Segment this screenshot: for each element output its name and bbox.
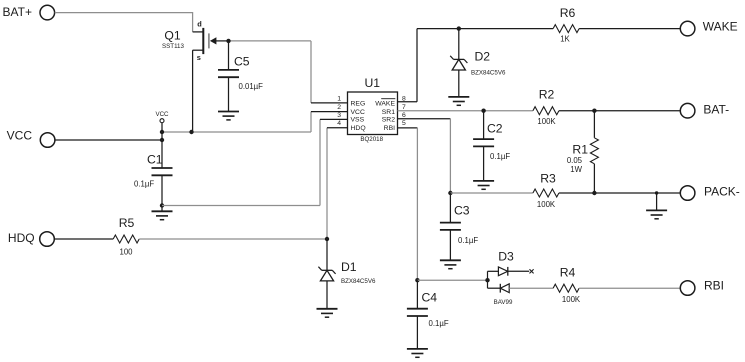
- junction R1 bottom node: [592, 191, 596, 195]
- svg-text:SST113: SST113: [162, 43, 184, 50]
- svg-text:0.1µF: 0.1µF: [458, 236, 478, 245]
- ground under C4: [407, 349, 428, 357]
- wire VCC terminal to node: [55, 139, 162, 141]
- svg-text:0.1µF: 0.1µF: [429, 319, 449, 328]
- wire RBI node to D3: [417, 279, 487, 281]
- resistor R6: [553, 6, 579, 43]
- wire R6 to WAKE terminal: [579, 28, 680, 30]
- svg-text:C5: C5: [234, 55, 250, 69]
- svg-text:BZX84C5V6: BZX84C5V6: [471, 70, 506, 77]
- svg-text:HDQ: HDQ: [8, 231, 35, 245]
- svg-text:WAKE: WAKE: [375, 100, 395, 107]
- svg-text:BAV99: BAV99: [494, 299, 513, 306]
- svg-text:R3: R3: [540, 171, 556, 185]
- svg-text:1: 1: [337, 95, 341, 102]
- IC U1 BQ2018: [337, 76, 406, 143]
- terminal VCC: [7, 129, 55, 148]
- diode D3 (BAV99 dual): [488, 249, 554, 305]
- power VCC symbol: [155, 111, 169, 132]
- svg-text:s: s: [197, 53, 201, 62]
- wire RBI net from U1 pin 5: [398, 128, 418, 280]
- svg-text:100K: 100K: [537, 117, 556, 126]
- junction VCC symbol node: [160, 130, 164, 134]
- capacitor C2: [473, 111, 510, 181]
- wire R2 to BAT- terminal: [559, 110, 680, 112]
- svg-text:R5: R5: [119, 216, 135, 230]
- resistor R1: [567, 111, 599, 193]
- resistor R5: [113, 216, 139, 256]
- terminal RBI: [680, 279, 724, 296]
- svg-text:VCC: VCC: [155, 111, 169, 118]
- svg-text:VSS: VSS: [351, 117, 365, 124]
- capacitor C3: [440, 193, 478, 260]
- ground under C5: [218, 112, 239, 120]
- wire WAKE net from U1 pin 8: [398, 29, 554, 102]
- svg-text:d: d: [197, 20, 202, 29]
- wire HDQ net to U1 pin 4: [139, 128, 347, 239]
- svg-text:SR1: SR1: [382, 109, 395, 116]
- svg-text:C4: C4: [422, 291, 438, 305]
- ground under D1: [317, 281, 338, 317]
- svg-text:BQ2018: BQ2018: [360, 136, 383, 143]
- svg-text:REG: REG: [351, 100, 366, 107]
- svg-text:U1: U1: [365, 76, 381, 90]
- wire HDQ node to D1: [326, 239, 328, 270]
- svg-text:R1: R1: [572, 142, 588, 156]
- svg-text:D2: D2: [475, 49, 491, 63]
- svg-text:RBI: RBI: [704, 279, 724, 293]
- terminal PACK-: [680, 185, 739, 201]
- svg-text:D3: D3: [498, 249, 514, 263]
- svg-text:0.1µF: 0.1µF: [134, 179, 154, 188]
- svg-text:VCC: VCC: [351, 109, 365, 116]
- svg-text:Q1: Q1: [164, 28, 180, 42]
- transistor Q1: [162, 20, 228, 62]
- svg-text:R6: R6: [560, 6, 576, 20]
- resistor R3: [533, 171, 559, 208]
- svg-text:BZX84C5V6: BZX84C5V6: [341, 278, 376, 285]
- junction C1 bottom node: [160, 203, 164, 207]
- svg-text:100: 100: [119, 247, 133, 256]
- svg-text:100K: 100K: [562, 295, 581, 304]
- diode D2 (zener): [450, 29, 506, 97]
- svg-text:3: 3: [337, 112, 341, 119]
- wire R4 to RBI terminal: [579, 287, 680, 289]
- svg-text:C1: C1: [147, 153, 163, 167]
- ground on PACK- net: [646, 193, 667, 219]
- svg-text:BAT-: BAT-: [703, 103, 729, 117]
- terminal WAKE: [680, 19, 737, 36]
- svg-text:7: 7: [402, 104, 406, 111]
- svg-text:PACK-: PACK-: [704, 185, 740, 199]
- junction C4 node: [415, 278, 419, 282]
- svg-text:0.01µF: 0.01µF: [239, 82, 264, 91]
- resistor R2: [533, 87, 559, 126]
- svg-text:D1: D1: [341, 260, 357, 274]
- svg-text:SR2: SR2: [382, 117, 395, 124]
- junction C2 node: [481, 109, 485, 113]
- junction C3 node: [448, 191, 452, 195]
- wire VSS net to U1 pin 3: [162, 119, 348, 205]
- capacitor C4: [407, 280, 449, 349]
- wire HDQ terminal to R5: [54, 238, 113, 240]
- wire gate node to U1 pin 1: [229, 41, 348, 103]
- junction Q1 source node: [189, 130, 193, 134]
- terminal HDQ: [8, 231, 54, 246]
- junction R1 top node: [592, 109, 596, 113]
- ground under D2: [448, 97, 469, 105]
- terminal BAT+: [3, 5, 55, 20]
- svg-text:0.1µF: 0.1µF: [490, 152, 510, 161]
- diode D1 (zener): [318, 260, 376, 285]
- junction VCC terminal node: [160, 138, 164, 142]
- ground under C3: [440, 260, 461, 268]
- junction D3 bracket node: [485, 278, 489, 282]
- svg-text:0.05: 0.05: [567, 156, 583, 165]
- svg-text:100K: 100K: [537, 200, 556, 209]
- svg-text:5: 5: [402, 120, 406, 127]
- svg-text:1K: 1K: [560, 34, 570, 43]
- svg-text:1W: 1W: [570, 165, 582, 174]
- capacitor C5: [218, 41, 263, 112]
- svg-text:R4: R4: [560, 265, 576, 279]
- svg-text:R2: R2: [539, 87, 555, 101]
- svg-text:RBI: RBI: [384, 125, 395, 132]
- svg-text:WAKE: WAKE: [703, 19, 738, 33]
- junction HDQ node: [325, 237, 329, 241]
- svg-text:VCC: VCC: [7, 129, 33, 143]
- svg-text:HDQ: HDQ: [351, 125, 366, 132]
- svg-text:4: 4: [337, 120, 341, 127]
- svg-text:C2: C2: [487, 121, 503, 135]
- wire VCC net to U1 pin 2: [162, 112, 348, 132]
- svg-text:6: 6: [402, 112, 406, 119]
- svg-text:C3: C3: [454, 203, 470, 217]
- junction D2 node: [457, 26, 461, 30]
- ground under C1: [152, 206, 173, 220]
- wire Q1 source to VCC net: [192, 50, 194, 132]
- wire SR1 net from U1 pin 7: [398, 110, 533, 112]
- wire PACK- net left segment: [450, 192, 533, 194]
- wire SR2 net from U1 pin 6: [398, 119, 451, 193]
- svg-text:2: 2: [337, 104, 341, 111]
- capacitor C1: [134, 132, 173, 206]
- junction PACK- ground tap: [655, 191, 658, 194]
- wire R3 to PACK- terminal: [559, 192, 680, 194]
- resistor R4: [553, 265, 581, 303]
- ground under C2: [473, 181, 494, 189]
- wire BAT+ net to Q1 drain: [55, 13, 193, 32]
- terminal BAT-: [680, 103, 729, 118]
- svg-text:BAT+: BAT+: [3, 5, 32, 19]
- junction gate / C5 node: [226, 39, 230, 43]
